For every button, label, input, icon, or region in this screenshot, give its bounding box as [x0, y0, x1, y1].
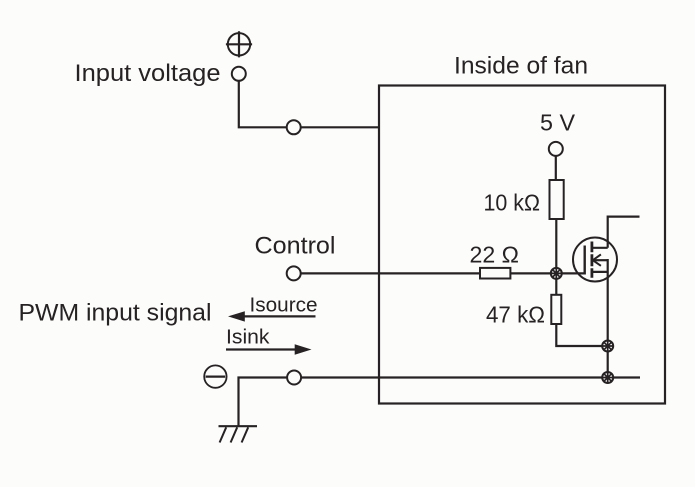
svg-text:Input voltage: Input voltage — [75, 60, 221, 87]
wire: input terminal down and right to fan box — [239, 81, 379, 128]
wire: 47k resistor down then right to MOSFET source node — [556, 324, 607, 346]
junction at MOSFET source node — [602, 341, 613, 352]
wire: gate node junction down to 47k resistor — [555, 273, 557, 295]
svg-text:47 kΩ: 47 kΩ — [486, 302, 545, 328]
Isink arrow — [226, 344, 312, 354]
MOSFET Q1 body circle — [573, 238, 617, 282]
Q1 gate bar — [584, 246, 586, 275]
fan enclosure box — [379, 86, 665, 404]
control terminal circle — [287, 266, 301, 280]
plus terminal symbol — [226, 31, 252, 57]
Q1 body stub — [593, 259, 608, 261]
wire: bottom rail from ground corner to right stub — [239, 378, 641, 427]
svg-text:22 Ω: 22 Ω — [470, 242, 520, 268]
wire: MOSFET drain up and right stub — [608, 217, 640, 248]
input voltage terminal circle — [232, 67, 246, 81]
ground symbol — [219, 426, 258, 442]
svg-text:PWM input signal: PWM input signal — [19, 300, 212, 327]
svg-text:Control: Control — [255, 233, 336, 260]
svg-text:Isink: Isink — [226, 326, 270, 349]
wire: control line to MOSFET gate — [301, 272, 585, 274]
junction at gate node — [551, 268, 562, 279]
resistor 47 kOhm body — [551, 295, 561, 324]
wire: MOSFET source/body vertical line down to bottom rail — [607, 259, 609, 378]
Q1 body arrow — [593, 254, 601, 265]
resistor 22 Ohm body — [480, 268, 510, 279]
wire: 5V terminal down to 10k resistor — [555, 156, 557, 181]
wire: 10k resistor down to gate node junction — [555, 219, 557, 273]
svg-text:Inside of fan: Inside of fan — [454, 52, 588, 79]
svg-text:5 V: 5 V — [540, 110, 575, 136]
Q1 source stub — [592, 271, 608, 273]
5V terminal circle — [549, 142, 563, 156]
junction on bottom rail — [602, 372, 613, 383]
Q1 channel bar segments — [591, 242, 594, 278]
svg-text:Isource: Isource — [250, 293, 318, 316]
Q1 drain stub — [592, 247, 608, 249]
resistor 10 kOhm body — [550, 180, 564, 219]
node circle on input wire — [287, 120, 301, 134]
Isource arrow — [228, 311, 316, 321]
minus terminal symbol — [204, 365, 226, 387]
svg-text:10 kΩ: 10 kΩ — [484, 190, 541, 216]
PWM minus terminal circle on bottom rail — [287, 371, 301, 385]
